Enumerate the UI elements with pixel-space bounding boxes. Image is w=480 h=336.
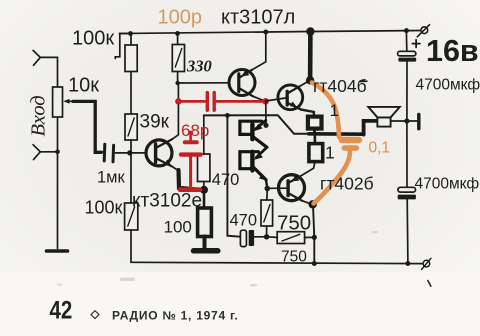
resistor R 470 feedback body bbox=[198, 154, 210, 182]
wire speaker to main vertical bbox=[391, 120, 407, 122]
label footer diamond bbox=[91, 311, 99, 319]
svg-text:Вход: Вход bbox=[28, 95, 50, 136]
svg-text:кт3107л: кт3107л bbox=[221, 7, 295, 29]
diode chain (marker) bbox=[240, 121, 267, 189]
wire pot bottom down bbox=[57, 117, 59, 249]
node top rail / 330 bbox=[175, 31, 180, 36]
wire to output terminal bbox=[407, 120, 417, 122]
wire 470 lower top to base node bbox=[266, 189, 269, 201]
wire base kt3107 bbox=[178, 82, 230, 84]
resistor R 100 body (marker) bbox=[198, 208, 212, 237]
node Q4 base bbox=[265, 186, 271, 192]
transistor Q4 gt402b bbox=[279, 175, 305, 201]
wire 750 right bbox=[305, 236, 315, 238]
svg-text:100р: 100р bbox=[158, 7, 203, 29]
wire 1mk to base node bbox=[115, 152, 129, 154]
wire 4700 upper to speaker node bbox=[406, 62, 408, 121]
wire bottom rail bbox=[131, 262, 422, 263]
wire feedback to output node bbox=[204, 115, 309, 134]
wire R1 upper to output bbox=[313, 129, 316, 134]
node supply drop bottom bbox=[306, 76, 314, 84]
svg-text:750: 750 bbox=[277, 212, 311, 235]
capacitor C 0,1 (orange) bbox=[339, 137, 362, 151]
svg-text:470: 470 bbox=[212, 171, 240, 189]
svg-text:гт402б: гт402б bbox=[320, 174, 374, 194]
terminal bottom output bbox=[422, 258, 431, 269]
svg-text:1: 1 bbox=[330, 101, 339, 120]
stray pen tick bbox=[428, 281, 431, 287]
wire Q4 base bbox=[267, 187, 286, 189]
wire Q1 collector up bbox=[172, 83, 178, 139]
wire node to R100 bbox=[203, 190, 206, 208]
capacitor C 100p (red) bbox=[175, 93, 269, 111]
svg-text:39к: 39к bbox=[140, 112, 170, 133]
svg-text:470: 470 bbox=[230, 212, 258, 230]
node supply drop top bbox=[306, 27, 314, 35]
wire Q3 emitter to R1 bbox=[301, 109, 314, 116]
wire input top to pot bbox=[40, 57, 57, 87]
svg-text:100к: 100к bbox=[72, 28, 114, 50]
diode VD2 bracket bbox=[240, 152, 259, 169]
wire R100 to ground bbox=[203, 237, 207, 248]
diode VD1 bar bbox=[250, 124, 254, 139]
wire 39k to base node bbox=[130, 140, 132, 153]
wire diode rail down to cap bbox=[227, 115, 240, 236]
node 330 bottom bbox=[175, 81, 179, 85]
capacitor C 68p (red) bbox=[180, 132, 201, 190]
node B diode top bbox=[263, 123, 268, 128]
capacitor C 4700mkf lower bbox=[398, 187, 416, 199]
wire 330 bottom bbox=[177, 72, 179, 84]
speaker BA1 bbox=[368, 107, 400, 127]
svg-text:100: 100 bbox=[164, 218, 192, 237]
node input bottom junction bbox=[55, 150, 60, 155]
power plus sign bbox=[412, 40, 420, 48]
wire input bottom to vertical bbox=[40, 151, 57, 153]
node speaker junction bbox=[404, 118, 409, 123]
svg-text:16в: 16в bbox=[426, 34, 479, 68]
node top rail / 4700 cap bbox=[404, 28, 409, 33]
svg-text:4700мкф: 4700мкф bbox=[415, 176, 480, 193]
resistor R 1 upper (marker) bbox=[308, 117, 322, 129]
ground bar bbox=[194, 248, 218, 254]
potentiometer wiper arrow bbox=[63, 99, 78, 104]
svg-text:750: 750 bbox=[281, 249, 307, 266]
resistor R 100k upper body bbox=[125, 45, 137, 72]
wire orange bootstrap lower bbox=[314, 151, 351, 204]
wire Q3 collector to supply node bbox=[300, 80, 311, 86]
node 750 junction bbox=[312, 235, 317, 240]
node bottom rail / output stage bbox=[312, 261, 317, 266]
wire left bias column bbox=[130, 34, 132, 46]
capacitor C 4700mkf upper bbox=[398, 51, 417, 61]
wire marker Q1 emitter to node bbox=[179, 170, 202, 190]
wire Q2 collector to node bbox=[253, 96, 266, 101]
wire Q3 base bbox=[266, 98, 286, 101]
wire speaker node down bbox=[406, 121, 408, 187]
wire Q4 collector down bbox=[302, 201, 312, 205]
wire 100k lower to bottom rail bbox=[130, 230, 132, 262]
wire 470 bottom to emitter node bbox=[203, 182, 205, 190]
wire 4700 lower to bottom rail bbox=[406, 199, 409, 263]
terminal output T bar bbox=[417, 114, 420, 128]
svg-text:100к: 100к bbox=[85, 198, 123, 218]
node elco / 470 / 750 bbox=[264, 234, 269, 239]
node Q1 emitter junction bbox=[200, 186, 208, 194]
node feedback / diode rail bbox=[225, 113, 230, 118]
wire base node to Q1 bbox=[130, 152, 146, 154]
node bottom rail / 4700 cap bbox=[405, 261, 410, 266]
wire 470 top to feedback wire bbox=[203, 115, 205, 154]
svg-text:68р: 68р bbox=[181, 121, 209, 140]
capacitor C electrolytic output lower bbox=[240, 230, 254, 247]
transistor Q1 kt3102e bbox=[146, 139, 172, 166]
svg-text:42: 42 bbox=[50, 296, 73, 324]
transistor Q2 kt3107l bbox=[229, 70, 255, 97]
wire 100k to 39k bbox=[130, 72, 132, 115]
resistor R 750 horizontal body bbox=[277, 232, 304, 244]
node base kt3102 bbox=[127, 150, 132, 155]
svg-text:4700мкф: 4700мкф bbox=[416, 77, 480, 94]
wire output node (marker) bbox=[309, 132, 363, 136]
diode VD1 out bbox=[254, 137, 267, 147]
node top rail / 100k bbox=[128, 31, 133, 36]
wire marker supply drop bbox=[308, 32, 313, 81]
svg-text:гт404б: гт404б bbox=[313, 76, 367, 96]
wire top supply rail bbox=[120, 31, 410, 34]
wire VD2 to base node bbox=[266, 180, 267, 189]
wire Q2 emitter to rail bbox=[252, 32, 266, 70]
wire Q1 emitter down bbox=[171, 166, 179, 171]
wire main right vertical top bbox=[405, 31, 407, 52]
diode VD2 emitter in bbox=[254, 147, 267, 160]
diode VD2 out bbox=[254, 167, 267, 180]
diode VD2 bar bbox=[250, 152, 254, 171]
resistor R 39k body bbox=[125, 114, 137, 140]
transistor Q3 gt404b bbox=[278, 85, 303, 110]
wire 750 left bbox=[267, 236, 278, 239]
wire 330 top bbox=[177, 33, 179, 44]
wire hook stub left of rail bbox=[115, 34, 130, 59]
wire Q4 emitter to R1-2 bbox=[300, 162, 315, 177]
resistor R 330 body bbox=[172, 45, 184, 72]
wire R1 lower top stub bbox=[314, 136, 317, 144]
terminal power plus bbox=[417, 25, 429, 37]
wire base node down bbox=[130, 153, 132, 203]
scan smudges bbox=[57, 231, 378, 286]
terminal input upper fork bbox=[33, 50, 40, 65]
svg-text:330: 330 bbox=[186, 57, 212, 76]
wire 470 lower bottom bbox=[266, 226, 268, 237]
wire rail to power terminal bbox=[409, 30, 420, 32]
wire Q4 collector to bottom rail bbox=[313, 204, 314, 263]
resistor R 470 lower body bbox=[261, 200, 273, 226]
diode VD1 emitter in bbox=[254, 121, 266, 132]
ground input bar bbox=[47, 249, 68, 253]
wire node B vertical bbox=[265, 101, 267, 125]
node Q4 collector / orange bbox=[309, 200, 317, 208]
svg-text:10к: 10к bbox=[68, 75, 99, 97]
diode VD1 bracket bbox=[240, 121, 262, 134]
svg-text:0,1: 0,1 bbox=[369, 140, 391, 157]
wire marker from wiper to 1mk cap bbox=[73, 101, 102, 152]
wire output up to speaker bbox=[364, 121, 378, 135]
svg-text:кт3102е: кт3102е bbox=[132, 191, 202, 212]
capacitor C 1mk bbox=[104, 144, 113, 162]
svg-text:1: 1 bbox=[325, 143, 335, 163]
resistor R 1 lower (marker) bbox=[309, 144, 323, 162]
node top rail / emitter kt3107 bbox=[263, 30, 268, 35]
wire elco to 750 node bbox=[254, 236, 267, 238]
terminal input lower fork bbox=[33, 145, 40, 160]
potentiometer 10k body bbox=[53, 87, 63, 117]
wire orange bootstrap upper bbox=[312, 83, 339, 138]
svg-text:1мк: 1мк bbox=[97, 169, 126, 187]
resistor R 100k lower body bbox=[125, 203, 138, 230]
svg-text:РАДИО № 1, 1974 г.: РАДИО № 1, 1974 г. bbox=[112, 309, 239, 323]
